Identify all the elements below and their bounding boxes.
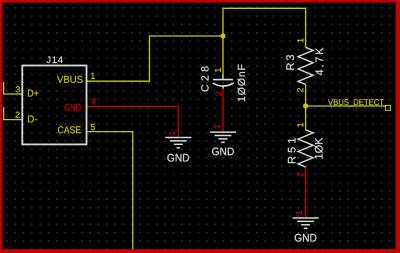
resistor R51 pin number 2 [297, 173, 303, 177]
resistor R3 pin number 2 [297, 88, 303, 92]
capacitor C28 pin number 2 [216, 92, 222, 96]
junction dot VBUS_DETECT/R51 [303, 103, 308, 108]
ground symbol GND3 label [295, 234, 317, 242]
J14 pin number 4 [91, 98, 95, 104]
capacitor C28 value 100nF [238, 64, 246, 101]
J14 pin number 1 [91, 73, 95, 79]
J14 pin name CASE [58, 126, 81, 133]
wire J14 pin 2 stub [4, 107, 23, 120]
J14 pin name GND [65, 104, 81, 111]
resistor R51 pin number 1 [297, 123, 303, 127]
J14 pin name D- [28, 116, 37, 123]
J14 pin name D+ [28, 90, 38, 97]
connector J14 reference label [46, 57, 62, 64]
resistor R51 value 10K [315, 138, 323, 159]
wire R51 pin2 down to GND3 [305, 167, 307, 217]
wire junction to C28 pin 1 [222, 36, 224, 75]
ground symbol GND1 label [167, 154, 189, 162]
wire VBUS_DETECT stub [306, 105, 386, 107]
wire R3 pin2 to VBUS_DETECT junction [305, 85, 307, 107]
wire C28 pin2 down to GND2 [222, 88, 224, 131]
wire VBUS: J14 pin1 to corner junction [87, 36, 224, 81]
junction dot VBUS/C28 [220, 33, 225, 38]
resistor R51 zigzag [298, 130, 313, 167]
J14 pin number 2 [16, 112, 20, 118]
ground symbol GND1 (left) [165, 138, 191, 148]
ground symbol GND3 pin number 1 [296, 211, 302, 215]
J14 pin name VBUS [57, 76, 83, 83]
ground symbol GND2 (middle) [210, 132, 236, 142]
resistor R3 reference label [286, 55, 294, 70]
capacitor C28 pin stubs [222, 75, 224, 89]
unconnected end square of VBUS_DETECT [385, 105, 390, 110]
resistor R3 value 4.7K [316, 48, 324, 76]
capacitor C28 bottom curved plate [213, 83, 234, 86]
resistor R51 reference label [288, 138, 296, 163]
capacitor C28 reference label [201, 67, 208, 92]
resistor R3 zigzag [298, 47, 313, 84]
wire GND net from J14 pin4 to GND1 [87, 106, 179, 136]
wire VBUS riser across top to R3 [223, 8, 306, 47]
J14 pin number 3 [16, 86, 20, 92]
net label VBUS_DETECT [328, 99, 384, 107]
wire CASE: J14 pin5 down to sheet edge [87, 132, 133, 250]
J14 pin number 5 [91, 124, 95, 130]
wire junction to R51 pin 1 [305, 106, 307, 130]
ground symbol GND2 label [212, 148, 234, 156]
ground symbol GND2 pin number 1 [214, 125, 220, 129]
capacitor C28 top plate [213, 79, 233, 81]
ground symbol GND1 pin number 1 [169, 131, 175, 135]
capacitor C28 pin number 1 [215, 68, 221, 72]
wire J14 pin 3 stub [4, 82, 23, 94]
resistor R3 pin number 1 [297, 38, 303, 42]
connector J14 body [22, 66, 86, 145]
ground symbol GND3 (bottom right) [293, 218, 319, 228]
